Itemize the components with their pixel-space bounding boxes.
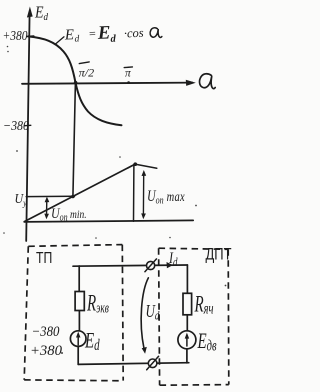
svg-text:ДПТ: ДПТ: [206, 245, 232, 264]
svg-text:d: d: [74, 34, 79, 44]
svg-text:−380: −380: [32, 324, 61, 340]
svg-text:Uоп max: Uоп max: [147, 189, 185, 207]
svg-text:ТП: ТП: [36, 250, 52, 267]
svg-text:·cos: ·cos: [124, 26, 144, 41]
svg-text:E: E: [64, 27, 75, 43]
svg-text:E: E: [96, 22, 110, 43]
svg-text:π/2: π/2: [79, 66, 94, 80]
svg-text:=: =: [88, 26, 97, 40]
svg-text:Uоп min.: Uоп min.: [51, 205, 87, 223]
svg-text:−380: −380: [3, 119, 29, 134]
svg-text:+380: +380: [3, 29, 28, 44]
svg-text:+380: +380: [30, 343, 62, 359]
